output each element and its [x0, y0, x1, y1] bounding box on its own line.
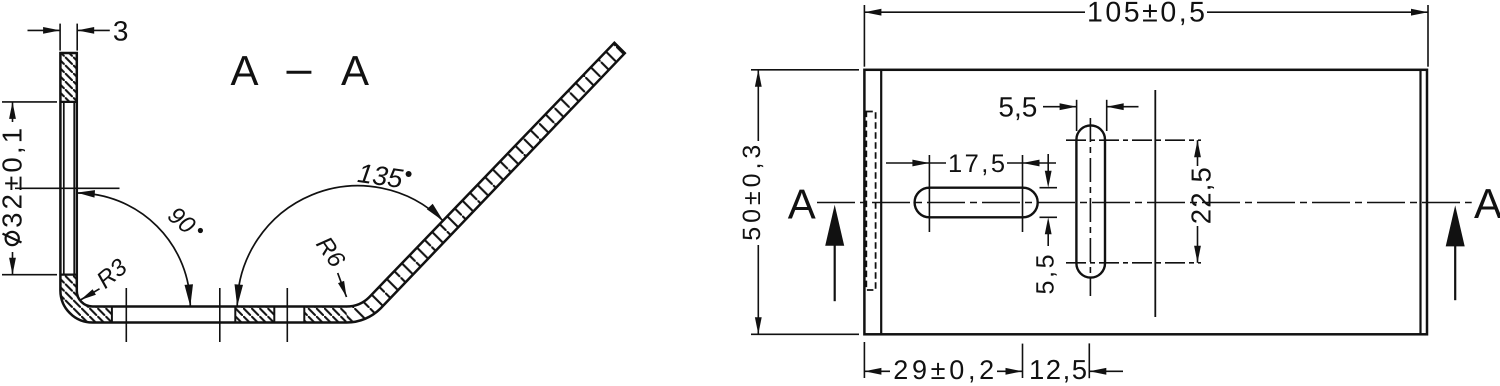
- section arrow right: [1454, 240, 1456, 300]
- hole phi32 edges in section: [60, 101, 76, 103]
- hatch: flat web between slots: [235, 307, 274, 323]
- slot end face lines on flat web: [111, 307, 113, 323]
- hatch: 135-degree bend and slanted flange: [347, 43, 625, 323]
- svg-text:A: A: [341, 47, 369, 94]
- svg-text:A: A: [1474, 180, 1500, 227]
- svg-text:5,5: 5,5: [998, 91, 1037, 122]
- section title A - A: [230, 47, 369, 94]
- svg-text:135: 135: [356, 158, 406, 194]
- dimension phi32 +/- 0,1: [2, 102, 57, 275]
- svg-text:17,5: 17,5: [948, 150, 1005, 178]
- svg-text:5,5: 5,5: [1032, 255, 1060, 295]
- dimension 105 +/- 0,5: [864, 5, 1428, 67]
- section arrow left: [834, 240, 836, 301]
- horizontal slot 17,5: [915, 188, 1038, 218]
- svg-text:A: A: [788, 181, 816, 228]
- 90-degree bend line left: [880, 70, 882, 335]
- dimension 17,5: [886, 155, 1056, 232]
- dimension 5,5 top (vertical slot width): [1043, 100, 1139, 131]
- R3 radius leader: [80, 289, 99, 300]
- hatch: vertical flange top segment: [60, 53, 76, 102]
- dimension 29 +/- 0,2 and 12,5: [864, 342, 1123, 378]
- hidden phi32 hole on edge (dashed): [866, 112, 875, 291]
- hatch: flat web right of vertical slot: [304, 307, 346, 323]
- 135-degree bend line: [1154, 90, 1156, 317]
- dimension 5,5 bottom (horizontal slot width): [1040, 154, 1058, 246]
- 90 degree angular dimension arc: [77, 193, 191, 307]
- svg-text:32±0,1: 32±0,1: [0, 128, 28, 228]
- bracket profile outline: [60, 43, 624, 323]
- svg-text:3: 3: [113, 15, 129, 46]
- hatch: 90-degree bend corner: [60, 275, 112, 323]
- slant end edge right: [1419, 70, 1421, 335]
- plate outline: [864, 70, 1427, 335]
- hole center line: [15, 187, 120, 189]
- dimension 3 (thickness): [28, 24, 110, 51]
- section center line A-A: [817, 202, 1472, 204]
- vertical slot arc-center cross lines / 22,5 extensions: [1066, 139, 1201, 141]
- slot center marks on flat web: [125, 288, 127, 342]
- svg-text:12,5: 12,5: [1029, 354, 1087, 385]
- R6 radius leader: [338, 273, 347, 297]
- 135 degree angular dimension arc: [237, 186, 443, 307]
- dimension 50 +/- 0,3: [751, 70, 859, 335]
- svg-text:22,5: 22,5: [1186, 167, 1217, 224]
- vertical slot center line: [1089, 118, 1091, 296]
- svg-text:A: A: [230, 47, 258, 94]
- vertical slot 5,5 x 22,5: [1076, 125, 1105, 277]
- dimension 22,5: [1197, 140, 1199, 263]
